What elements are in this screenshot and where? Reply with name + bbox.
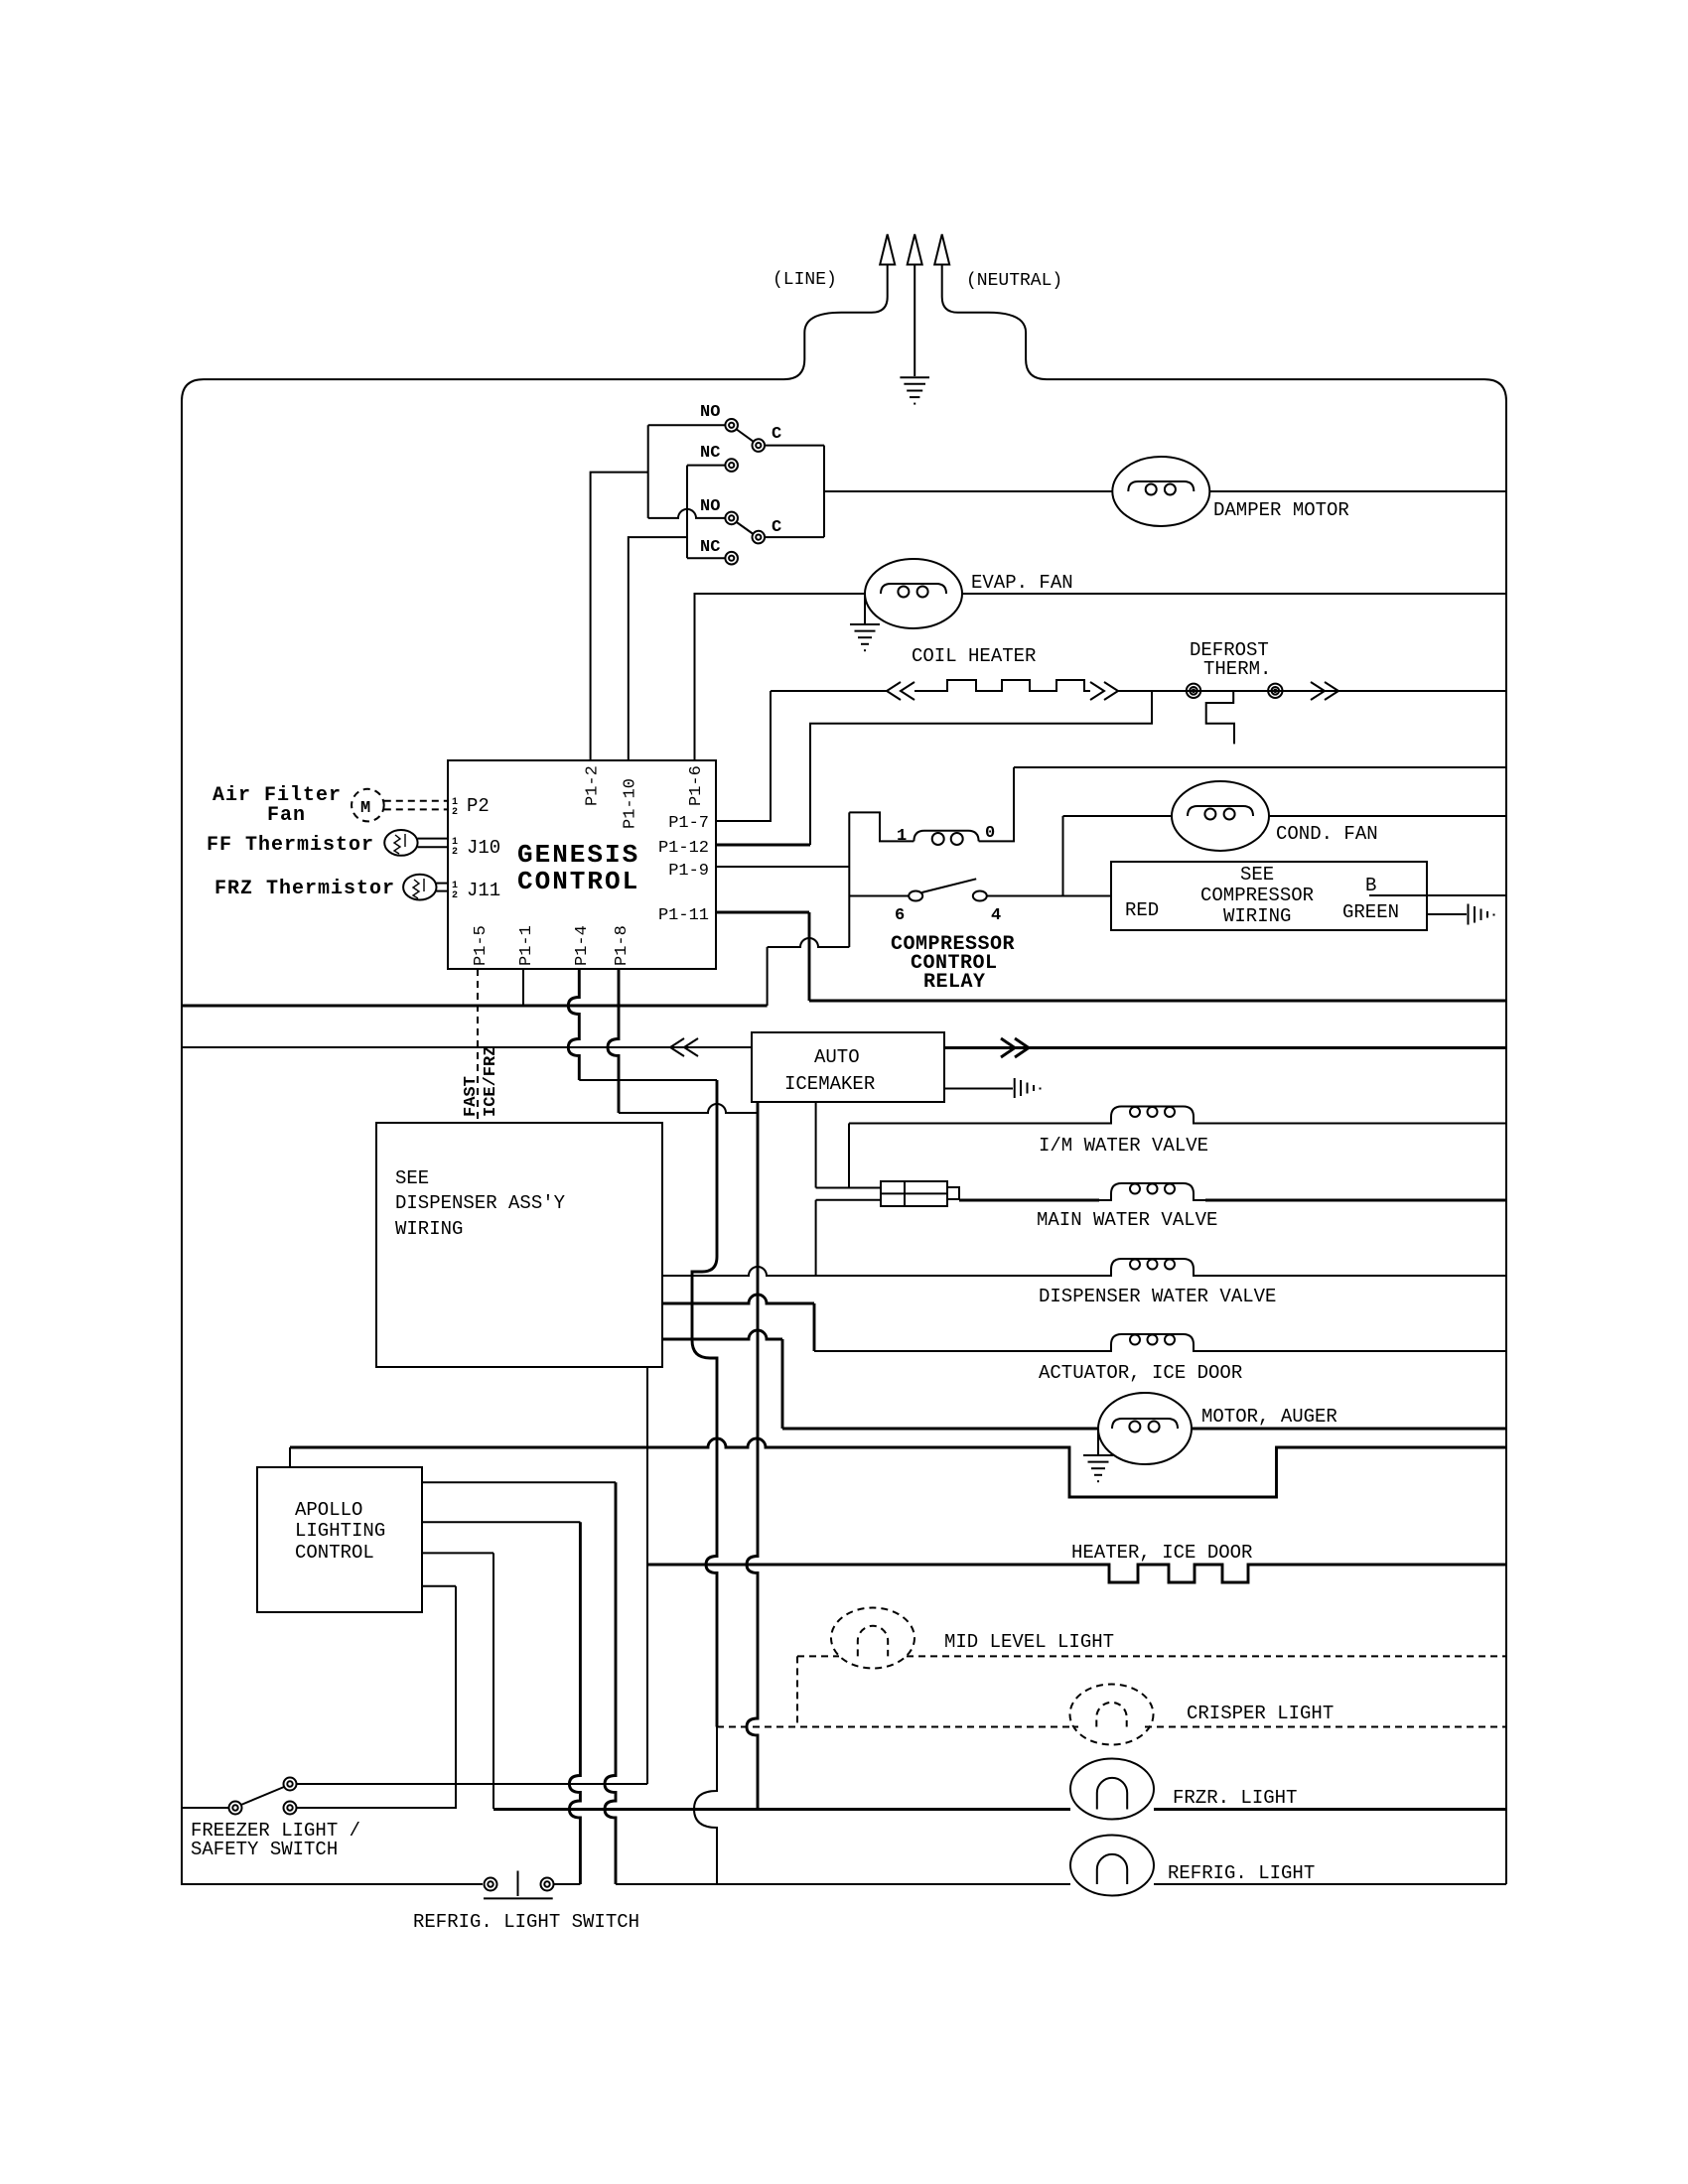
wire NO1 to left bracket bbox=[648, 424, 726, 426]
ground motor auger bbox=[1083, 1429, 1113, 1481]
wire freezer switch lower to apollo pin4 bbox=[297, 1807, 457, 1809]
wire ground pin stem bbox=[914, 265, 915, 377]
svg-text:SAFETY SWITCH: SAFETY SWITCH bbox=[191, 1839, 338, 1860]
pin label P1-1 bbox=[517, 925, 536, 966]
svg-text:AUTO: AUTO bbox=[814, 1046, 860, 1068]
svg-text:(NEUTRAL): (NEUTRAL) bbox=[966, 271, 1062, 291]
box APOLLO LIGHTING CONTROL bbox=[257, 1467, 422, 1612]
wire main water valve lane bbox=[959, 1199, 1099, 1202]
pin label P1-4 bbox=[573, 925, 592, 966]
chevron right pair on icemaker lane bbox=[1001, 1038, 1029, 1057]
svg-text:P1-4: P1-4 bbox=[573, 925, 592, 966]
wire actuator feed (wire B) with hop bbox=[662, 1295, 814, 1303]
svg-text:THERM.: THERM. bbox=[1203, 658, 1271, 680]
net label FAST ICE/FRZ bbox=[462, 1076, 481, 1117]
wire NEUTRAL stem S-curve to top border bbox=[942, 265, 1047, 380]
ground (mains earth) bbox=[900, 377, 929, 403]
wire leads J10 bbox=[418, 838, 448, 840]
chevron left pair on bus2 bbox=[670, 1038, 698, 1056]
wire compressor feed lane to right border bbox=[809, 1000, 1506, 1003]
svg-text:EVAP. FAN: EVAP. FAN bbox=[971, 572, 1073, 594]
svg-text:ICEMAKER: ICEMAKER bbox=[784, 1073, 875, 1095]
svg-text:2: 2 bbox=[452, 807, 458, 818]
svg-text:REFRIG. LIGHT: REFRIG. LIGHT bbox=[1168, 1862, 1315, 1884]
svg-text:NO: NO bbox=[700, 403, 720, 422]
wire apollo pin4 to safety switch column bbox=[422, 1585, 456, 1587]
svg-text:NC: NC bbox=[700, 444, 720, 463]
wire refrig light column with hops bbox=[605, 1482, 616, 1884]
contact defrost thermostat right bbox=[1268, 684, 1282, 698]
svg-text:CRISPER LIGHT: CRISPER LIGHT bbox=[1187, 1703, 1334, 1724]
svg-text:CONTROL: CONTROL bbox=[295, 1542, 374, 1564]
svg-text:MOTOR, AUGER: MOTOR, AUGER bbox=[1201, 1406, 1337, 1428]
solenoid main water valve coil bbox=[1099, 1183, 1205, 1200]
wire bus2 from left border to icemaker bbox=[182, 1046, 752, 1048]
svg-text:P1-12: P1-12 bbox=[658, 839, 709, 858]
svg-text:REFRIG. LIGHT SWITCH: REFRIG. LIGHT SWITCH bbox=[413, 1911, 639, 1933]
svg-text:COND. FAN: COND. FAN bbox=[1276, 823, 1378, 845]
wire apollo top pin riser bbox=[289, 1447, 291, 1467]
wire dispenser box bottom pin column bbox=[646, 1367, 648, 1784]
wire apollo pin1 to refrig light column bbox=[422, 1481, 616, 1483]
svg-text:(LINE): (LINE) bbox=[773, 270, 837, 290]
motor cond fan bbox=[1172, 781, 1269, 851]
switch damper NC (lower) contact bbox=[725, 552, 738, 565]
wire I/M water valve lane bbox=[849, 1123, 1099, 1125]
wire defrost thermostat capillary zigzag bbox=[1206, 691, 1234, 744]
svg-text:LIGHTING: LIGHTING bbox=[295, 1520, 385, 1542]
wire icemaker-valve column down bbox=[747, 1113, 758, 1810]
svg-text:P1-2: P1-2 bbox=[584, 765, 603, 806]
wire green ground lead bbox=[1427, 913, 1467, 915]
wire P1-2 riser to NO bracket bbox=[591, 473, 648, 760]
wire auger feed (wire C) with hop bbox=[662, 1330, 782, 1339]
svg-text:1: 1 bbox=[897, 827, 907, 846]
wire apollo pin4 drop to switch bbox=[455, 1586, 457, 1809]
svg-text:GENESIS: GENESIS bbox=[517, 840, 639, 870]
lamp mid level light (dashed) bbox=[831, 1608, 914, 1669]
wire auger riser bbox=[781, 1339, 784, 1429]
switch damper NO (lower) contact bbox=[725, 512, 738, 525]
wire icemaker ground lead bbox=[944, 1088, 1013, 1090]
contact defrost thermostat left bbox=[1187, 684, 1200, 698]
wire C1 to right bracket bbox=[765, 445, 824, 447]
wire icemaker pin to P1-8 link junction bbox=[757, 1102, 760, 1113]
wire LINE stem S-curve to top border bbox=[784, 265, 888, 380]
wire refrig switch right to apollo column bbox=[554, 1883, 581, 1885]
svg-text:FRZ Thermistor: FRZ Thermistor bbox=[214, 878, 395, 900]
switch arm relay contact bbox=[922, 879, 977, 892]
wire P1-12 riser and link to coil heater lane bbox=[810, 691, 1152, 845]
wire apollo pin3 drop to frzr lane bbox=[492, 1553, 494, 1809]
wire valve component lower lead bbox=[816, 1199, 881, 1201]
svg-text:FF Thermistor: FF Thermistor bbox=[207, 834, 374, 857]
wire refrig light lane bbox=[616, 1883, 1070, 1885]
svg-text:MID LEVEL LIGHT: MID LEVEL LIGHT bbox=[944, 1631, 1114, 1653]
thermistor RT1 FF bbox=[384, 830, 417, 856]
svg-text:P1-6: P1-6 bbox=[687, 765, 706, 806]
wire ice-door-heater feed with hops and detour under auger ground bbox=[290, 1438, 1506, 1497]
svg-text:M: M bbox=[360, 799, 370, 818]
svg-text:2: 2 bbox=[452, 890, 458, 901]
box SEE DISPENSER ASS'Y WIRING bbox=[376, 1123, 662, 1367]
svg-text:I/M WATER VALVE: I/M WATER VALVE bbox=[1039, 1135, 1208, 1157]
wire B terminal line to right border bbox=[1369, 894, 1506, 896]
pin label P1-10 bbox=[622, 778, 640, 829]
wire relay leg vertical bbox=[848, 812, 850, 895]
wire damper motor lane bbox=[824, 490, 1112, 492]
motor damper M1 bbox=[1112, 457, 1209, 526]
heater ice door element bbox=[1069, 1565, 1506, 1582]
wire P1-10 riser to NC bracket bbox=[629, 537, 687, 760]
svg-text:P1-1: P1-1 bbox=[517, 925, 536, 966]
svg-text:WIRING: WIRING bbox=[1223, 905, 1291, 927]
wire P1-7 to coil heater lane bbox=[716, 691, 771, 821]
wire motor auger lane bbox=[782, 1428, 1098, 1431]
solenoid actuator ice door coil bbox=[1099, 1334, 1205, 1351]
wire relay leg horizontal with hop over P1-11 riser bbox=[768, 938, 850, 947]
wire P1-1 drop to bus1 bbox=[522, 969, 524, 1006]
wire icemaker lane to right border bbox=[944, 1046, 1506, 1049]
wire relay leg down bbox=[848, 896, 850, 948]
switch damper NC (upper) contact bbox=[725, 459, 738, 472]
switch arm NO-C upper bbox=[737, 430, 754, 442]
wire bus1 from left border bbox=[182, 1005, 768, 1008]
svg-text:J11: J11 bbox=[467, 880, 500, 901]
svg-text:B: B bbox=[1365, 875, 1376, 896]
lamp crisper light (dashed) bbox=[1070, 1685, 1154, 1745]
wire P1-11 riser bbox=[808, 912, 811, 1001]
pin label P1-6 bbox=[687, 765, 706, 806]
chevron left pair on coil heater lane bbox=[887, 682, 914, 700]
svg-text:CONTROL: CONTROL bbox=[517, 867, 639, 896]
wire P1-8 drop with hop over bus2 bbox=[608, 969, 619, 1113]
motor auger bbox=[1098, 1393, 1192, 1464]
contact refrig switch left bbox=[485, 1878, 497, 1891]
switch damper NO (upper) contact bbox=[725, 419, 738, 432]
svg-text:COIL HEATER: COIL HEATER bbox=[912, 645, 1036, 667]
node LINE plug pin arrow bbox=[880, 234, 895, 265]
ground compressor green bbox=[1469, 904, 1494, 925]
svg-text:C: C bbox=[772, 518, 781, 537]
wire P1-8 link with hop over lights column bbox=[619, 1104, 758, 1113]
svg-text:C: C bbox=[772, 425, 781, 444]
wire dashed leads P2 bbox=[384, 800, 448, 802]
svg-text:SEE: SEE bbox=[1240, 864, 1274, 886]
wire border to freezer switch bbox=[182, 1807, 229, 1809]
chevron right pair after defrost therm bbox=[1311, 682, 1338, 700]
svg-text:APOLLO: APOLLO bbox=[295, 1499, 362, 1521]
wire actuator riser bbox=[813, 1303, 816, 1351]
wire NC1 horizontal bbox=[687, 465, 725, 467]
wire NC2 horizontal bbox=[687, 557, 725, 559]
contact freezer switch lower bbox=[284, 1802, 297, 1815]
svg-text:NC: NC bbox=[700, 538, 720, 557]
wire coil heater lane to defrost contacts bbox=[1118, 690, 1506, 692]
svg-text:P1-5: P1-5 bbox=[472, 925, 491, 966]
switch damper C (lower) contact bbox=[753, 531, 766, 544]
wire component feed drop to dispenser valve lane bbox=[815, 1200, 817, 1276]
wire relay 0 lane to right border bbox=[1014, 766, 1506, 768]
wire relay coil feed bbox=[849, 812, 914, 841]
svg-text:ACTUATOR, ICE DOOR: ACTUATOR, ICE DOOR bbox=[1039, 1362, 1242, 1384]
wire evap fan lane right bbox=[962, 593, 1506, 595]
svg-text:Fan: Fan bbox=[267, 804, 306, 827]
svg-text:P2: P2 bbox=[467, 795, 490, 817]
wire NC bracket vertical bbox=[686, 466, 688, 559]
wire actuator ice door lane bbox=[814, 1350, 1099, 1352]
ground evap fan bbox=[850, 594, 880, 650]
wire relay contact 4 to compressor box bbox=[987, 895, 1111, 897]
wire heater ice door lane from safety column bbox=[647, 1564, 1069, 1567]
motor M air filter fan (dashed circle) bbox=[352, 789, 384, 822]
contact relay 6 bbox=[909, 891, 922, 901]
wire main border loop (left, top segments, right, bottom-left) bbox=[182, 379, 784, 1884]
wire apollo pin3 to frzr light column bbox=[422, 1552, 493, 1554]
svg-text:COMPRESSOR: COMPRESSOR bbox=[1200, 885, 1314, 906]
svg-text:ICE/FRZ: ICE/FRZ bbox=[482, 1046, 500, 1117]
wire apollo pin2 to refrig switch column bbox=[422, 1521, 580, 1523]
wire im valve riser bbox=[848, 1124, 850, 1188]
wire relay coil 0 to top lane bbox=[979, 767, 1014, 841]
contact refrig switch right bbox=[541, 1878, 554, 1891]
svg-text:FRZR. LIGHT: FRZR. LIGHT bbox=[1173, 1787, 1297, 1809]
wire icemaker pin 2 drop bbox=[815, 1102, 817, 1188]
wire frzr light lane bbox=[493, 1808, 1070, 1811]
box SEE COMPRESSOR WIRING bbox=[1111, 862, 1427, 930]
svg-text:WIRING: WIRING bbox=[395, 1218, 463, 1240]
wire leads J11 bbox=[437, 883, 449, 885]
wire dispenser water valve lane (wire A) with hop bbox=[662, 1267, 1099, 1276]
wire valve component upper lead bbox=[816, 1187, 881, 1189]
contact freezer switch common bbox=[229, 1802, 242, 1815]
pin label P1-2 bbox=[584, 765, 603, 806]
wire lights column (from P1-4 link) with detour around valve wires bbox=[692, 1080, 717, 1727]
lamp refrig light bbox=[1070, 1836, 1154, 1896]
node NEUTRAL plug pin arrow bbox=[934, 234, 949, 265]
wire C2 to right bracket bbox=[765, 536, 824, 538]
svg-text:FAST: FAST bbox=[462, 1076, 481, 1117]
svg-text:P1-7: P1-7 bbox=[668, 814, 709, 833]
svg-text:6: 6 bbox=[895, 906, 905, 925]
switch arm freezer light safety switch bbox=[241, 1787, 284, 1805]
wire left bracket vertical NO1-NO2 bbox=[647, 425, 649, 518]
wire dashed mid level light lane bbox=[797, 1655, 839, 1657]
svg-text:P1-9: P1-9 bbox=[668, 862, 709, 881]
wire cond fan lane bbox=[1063, 815, 1173, 817]
svg-text:P1-8: P1-8 bbox=[613, 925, 632, 966]
wire P1-6 riser to evap fan lane bbox=[695, 594, 866, 760]
solenoid I/M water valve coil bbox=[1099, 1107, 1205, 1124]
wire P1-12 to coil heater tap bbox=[716, 844, 810, 847]
switch arm NO-C lower bbox=[737, 522, 754, 534]
lamp frzr light bbox=[1070, 1759, 1154, 1820]
motor evap fan bbox=[865, 559, 962, 628]
wire relay contact 6 left bbox=[849, 895, 909, 897]
svg-text:GREEN: GREEN bbox=[1342, 901, 1399, 923]
wire cond fan riser bbox=[1062, 816, 1064, 896]
svg-text:0: 0 bbox=[985, 824, 995, 843]
switch refrig light switch plunger bbox=[484, 1871, 553, 1899]
chevron right pair on coil heater lane bbox=[1090, 682, 1118, 700]
wire NO2 horizontal with hop over NC bracket bbox=[648, 509, 726, 518]
svg-text:P1-10: P1-10 bbox=[622, 778, 640, 829]
component main water valve connector bbox=[881, 1181, 959, 1206]
node ground plug pin arrow bbox=[908, 234, 922, 265]
wire P1-5 dashed drop to dispenser box bbox=[477, 969, 479, 1123]
wire dashed crisper feed riser bbox=[796, 1656, 798, 1726]
wire refrig switch column with hops bbox=[569, 1522, 580, 1884]
wire P1-4 drop with hops over bus1 and bus2 bbox=[568, 969, 579, 1080]
wire P1-4 link over to lights column bbox=[579, 1079, 717, 1081]
wire bus1 riser to relay bbox=[767, 947, 769, 1006]
heater coil heater element bbox=[914, 680, 1090, 691]
svg-text:J10: J10 bbox=[467, 837, 500, 859]
svg-text:SEE: SEE bbox=[395, 1167, 429, 1189]
svg-text:DISPENSER ASS'Y: DISPENSER ASS'Y bbox=[395, 1192, 566, 1214]
ground icemaker bbox=[1015, 1078, 1041, 1098]
pin label P1-8 bbox=[613, 925, 632, 966]
svg-text:MAIN WATER VALVE: MAIN WATER VALVE bbox=[1037, 1209, 1217, 1231]
contact relay 4 bbox=[973, 891, 987, 901]
wire dashed crisper light lane bbox=[717, 1726, 1078, 1728]
wire lights column lower with big hop over frzr lane bbox=[694, 1727, 717, 1885]
svg-text:DAMPER MOTOR: DAMPER MOTOR bbox=[1213, 499, 1349, 521]
svg-text:HEATER, ICE DOOR: HEATER, ICE DOOR bbox=[1071, 1542, 1252, 1564]
solenoid dispenser water valve coil bbox=[1099, 1259, 1205, 1276]
svg-text:2: 2 bbox=[452, 847, 458, 858]
svg-text:4: 4 bbox=[991, 906, 1001, 925]
contact freezer switch upper bbox=[284, 1778, 297, 1791]
svg-text:RELAY: RELAY bbox=[923, 971, 986, 994]
wire right bracket vertical C1-C2 bbox=[823, 446, 825, 537]
thermistor RT2 FRZ bbox=[403, 875, 436, 900]
IC U1 GENESIS CONTROL box bbox=[448, 760, 716, 969]
switch damper C (upper) contact bbox=[753, 439, 766, 452]
svg-text:NO: NO bbox=[700, 497, 720, 516]
box AUTO ICEMAKER bbox=[752, 1032, 944, 1102]
wire P1-9 bbox=[716, 866, 849, 868]
pin label P1-5 bbox=[472, 925, 491, 966]
svg-text:RED: RED bbox=[1125, 899, 1159, 921]
wire coil heater lane with chevrons and heater element bbox=[771, 690, 887, 692]
relay K1 coil bbox=[914, 831, 978, 845]
wire freezer switch upper to heater column bbox=[297, 1783, 648, 1785]
svg-text:DISPENSER WATER VALVE: DISPENSER WATER VALVE bbox=[1039, 1286, 1276, 1307]
wire P1-11 bbox=[716, 911, 809, 914]
svg-text:P1-11: P1-11 bbox=[658, 906, 709, 925]
